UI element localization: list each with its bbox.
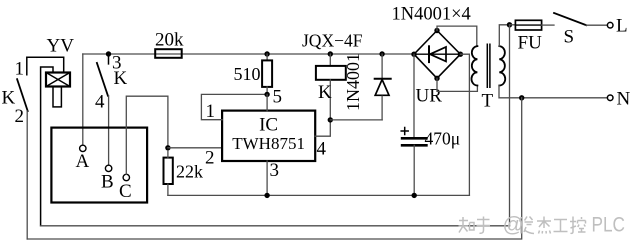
- wire junction down to rail2: [509, 25, 511, 226]
- svg-text:C: C: [119, 181, 132, 202]
- resistor 20k: [155, 49, 182, 58]
- transformer core: [487, 44, 490, 87]
- transformer T secondary winding: [471, 46, 477, 85]
- junction diode top on main rail: [379, 51, 384, 56]
- junction pin3 on rail1: [264, 193, 269, 198]
- junction relay coil top on main rail: [328, 51, 333, 56]
- watermark 知乎 @俊杰工控PLC: [459, 217, 586, 234]
- wire pin1 loop: [201, 94, 267, 119]
- terminal N: [607, 95, 613, 101]
- svg-text:YV: YV: [47, 36, 75, 57]
- svg-text:FU: FU: [518, 33, 543, 54]
- svg-text:1: 1: [15, 59, 25, 80]
- svg-text:2: 2: [15, 106, 25, 127]
- junction 510 top on main rail: [264, 51, 269, 56]
- capacitor 470u positive lead: [413, 54, 415, 137]
- wire pin4: [315, 120, 330, 136]
- svg-text:5: 5: [273, 87, 283, 108]
- svg-text:1: 1: [206, 101, 216, 122]
- wire C up and over to 22k junction: [126, 96, 168, 174]
- wire K1 lead down to rail3: [26, 111, 28, 239]
- svg-text:K: K: [318, 82, 332, 103]
- resistor 510: [266, 54, 268, 60]
- transformer T primary winding: [499, 46, 505, 85]
- switch K2 fixed contact stub: [108, 54, 110, 64]
- bridge rectifier UR diamond: [414, 31, 460, 79]
- relay coil K (JQX-4F): [329, 54, 331, 66]
- wire primary bottom to N line: [499, 86, 522, 98]
- wire N line: [522, 97, 608, 99]
- node C: [123, 174, 129, 180]
- svg-text:IC: IC: [259, 115, 278, 136]
- svg-text:2: 2: [205, 148, 215, 169]
- wire pin3 down to rail1: [266, 161, 268, 195]
- rail3 (K1 return to N): [27, 98, 522, 239]
- sensor box (A B C electrodes): [51, 128, 147, 203]
- diode 1N4001 (flyback): [381, 54, 383, 79]
- solenoid valve YV plunger: [53, 87, 61, 107]
- junction N / rail3: [519, 95, 524, 100]
- switch K1 fixed contact and bracket to YV: [27, 57, 64, 74]
- svg-text:20k: 20k: [155, 30, 184, 51]
- svg-text:1N4001×4: 1N4001×4: [392, 5, 471, 25]
- wire YV inner bracket: [41, 67, 53, 226]
- bridge node dots: [434, 28, 439, 33]
- fuse FU: [510, 24, 516, 26]
- svg-text:K: K: [114, 68, 128, 89]
- wire primary top to fuse junction: [499, 25, 509, 46]
- svg-text:JQX−4F: JQX−4F: [302, 31, 363, 51]
- svg-text:K: K: [2, 88, 16, 109]
- svg-text:4: 4: [317, 139, 327, 160]
- solenoid valve YV box: [46, 73, 70, 87]
- node A: [80, 145, 86, 151]
- rail2 (YV return to fuse junction): [41, 225, 510, 227]
- IC TWH8751 box: [222, 111, 315, 161]
- junction pin5/pin1/510: [264, 92, 269, 97]
- capacitor plates: [402, 137, 426, 140]
- node B: [105, 165, 111, 171]
- switch S blade: [554, 13, 586, 25]
- svg-text:PLC: PLC: [592, 214, 626, 237]
- wire bridge right node down to rail1 (DC-): [460, 54, 469, 195]
- junction fuse / primary / rail2: [507, 22, 512, 27]
- junction capacitor on rail1: [412, 193, 417, 198]
- capacitor plus sign: [401, 128, 408, 135]
- wire pin5: [266, 94, 268, 110]
- svg-text:510: 510: [234, 64, 261, 84]
- svg-text:TWH8751: TWH8751: [232, 134, 305, 153]
- switch K1 blade: [17, 79, 28, 111]
- wire bridge bottom node to secondary bottom: [437, 78, 477, 91]
- svg-text:T: T: [482, 91, 494, 112]
- junction 22k top / pin2: [165, 145, 170, 150]
- svg-text:@: @: [503, 214, 524, 237]
- svg-text:A: A: [76, 151, 90, 172]
- wire pin2: [168, 147, 222, 149]
- switch K2 blade: [97, 63, 108, 96]
- terminal L: [607, 22, 613, 28]
- bridge inner diode: [428, 46, 430, 62]
- wire bridge top node to transformer secondary top: [437, 26, 477, 46]
- svg-text:S: S: [564, 27, 575, 48]
- svg-text:UR: UR: [416, 86, 443, 107]
- svg-text:470μ: 470μ: [425, 129, 461, 149]
- wire A (from main rail down to probe A): [82, 54, 84, 145]
- resistor 22k: [164, 158, 173, 184]
- svg-text:N: N: [617, 89, 631, 110]
- svg-text:4: 4: [95, 92, 105, 113]
- svg-text:L: L: [616, 16, 628, 37]
- svg-text:B: B: [101, 172, 114, 193]
- svg-text:1N4001: 1N4001: [343, 53, 363, 111]
- svg-text:22k: 22k: [176, 162, 203, 182]
- rail1 (DC minus rail): [168, 194, 470, 196]
- wire main DC+ rail y=54: [83, 53, 414, 55]
- wire coil bottom to diode: [330, 119, 382, 121]
- junction coil bottom / pin4 / diode wire: [328, 117, 333, 122]
- junction K2 top: [106, 51, 111, 56]
- wire K2 lead down to probe B: [108, 96, 110, 166]
- svg-text:3: 3: [270, 160, 280, 181]
